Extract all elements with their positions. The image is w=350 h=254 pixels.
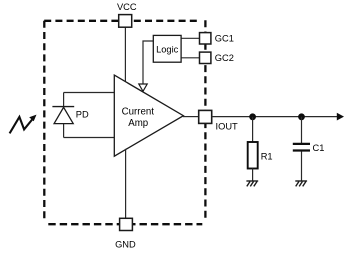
svg-text:GC1: GC1 — [215, 34, 234, 44]
wire node to C1 — [301, 117, 303, 143]
node junction at C1 — [298, 113, 305, 120]
svg-text:PD: PD — [76, 110, 89, 120]
svg-text:GND: GND — [115, 240, 136, 250]
resistor R1 — [248, 142, 258, 169]
wire R1 to ground — [252, 169, 254, 182]
wire Logic to GC2 — [181, 57, 200, 59]
wire amp to GND pad — [125, 149, 127, 219]
svg-text:VCC: VCC — [117, 2, 137, 12]
node junction at R1 — [249, 113, 256, 120]
pad GND — [120, 218, 133, 230]
pad IOUT — [199, 110, 212, 123]
svg-text:C1: C1 — [313, 143, 325, 153]
capacitor C1 — [293, 143, 310, 145]
svg-text:R1: R1 — [261, 151, 273, 161]
arrowhead output — [337, 113, 344, 121]
pad GC1 — [200, 33, 211, 44]
wire Logic to GC1 — [181, 37, 200, 39]
wire PD bottom to amp — [64, 137, 114, 139]
wire PD anode — [63, 124, 65, 138]
logic block U-Logic — [153, 35, 181, 62]
svg-text:Current: Current — [122, 106, 155, 117]
wire node to R1 — [252, 117, 254, 142]
ground (under C1) — [295, 181, 307, 186]
pad VCC — [119, 15, 132, 28]
IC dashed boundary box — [44, 20, 205, 224]
svg-text:Logic: Logic — [156, 44, 179, 54]
wire PD cathode — [63, 93, 65, 107]
light arrow (incident light symbol) — [10, 117, 33, 133]
svg-text:IOUT: IOUT — [216, 122, 239, 132]
op-amp Current Amp — [114, 75, 183, 156]
pad GC2 — [200, 52, 211, 63]
svg-text:Amp: Amp — [128, 118, 148, 129]
photodiode PD — [52, 106, 74, 108]
wire VCC pad to amp — [124, 26, 126, 83]
wire IOUT output — [212, 116, 339, 118]
svg-text:GC2: GC2 — [215, 53, 234, 63]
wire C1 to ground — [301, 152, 303, 182]
ground (under R1) — [246, 181, 258, 186]
arrowhead Logic-to-amp (open) — [139, 84, 147, 91]
wire amp output to IOUT pad — [183, 116, 199, 118]
wire PD top to amp — [64, 92, 114, 94]
wire Logic to amp — [143, 41, 153, 85]
